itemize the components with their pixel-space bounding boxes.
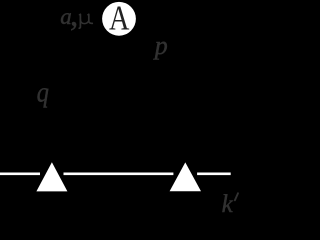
svg-text:A: A: [109, 0, 130, 37]
vertex blob A: [102, 2, 136, 36]
label mu (Lorentz index), drawn as paths: [79, 14, 92, 28]
svg-text:k: k: [222, 191, 234, 218]
arrow triangle 2: [170, 162, 201, 191]
wire: right segment of fermion line: [197, 173, 231, 176]
svg-text:q: q: [37, 76, 49, 108]
arrow triangle 1: [36, 162, 67, 191]
svg-text:p: p: [153, 31, 168, 60]
wire: left segment of fermion line: [0, 173, 40, 176]
svg-text:,: ,: [70, 0, 78, 33]
wire: middle segment of fermion line: [64, 173, 174, 176]
